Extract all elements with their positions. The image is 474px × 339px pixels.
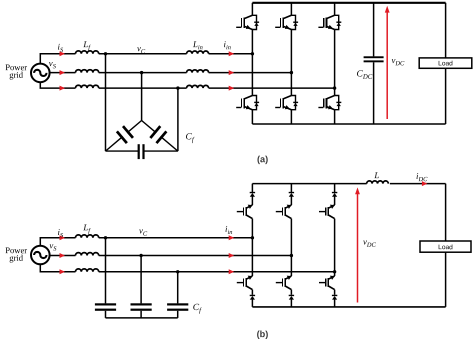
leg 1 wire igbt-diode (b): [251, 290, 253, 295]
svg-text:Lf: Lf: [82, 222, 91, 234]
svg-text:Load: Load: [438, 244, 453, 251]
node tap2 (b): [139, 254, 142, 257]
svg-text:Lin: Lin: [192, 39, 203, 51]
arrow i_S phase1 (b): [60, 235, 66, 240]
top DC rail (a): [252, 2, 445, 4]
leg 2 middle wire (b): [290, 219, 292, 276]
IGBT+diode S6 bottom (a): [318, 96, 341, 110]
svg-text:Load: Load: [438, 60, 453, 67]
svg-text:grid: grid: [9, 70, 24, 80]
leg 2 lower wire (a): [290, 110, 292, 124]
svg-text:iDC: iDC: [416, 171, 428, 183]
right vertical wire (a): [445, 3, 447, 124]
wire cap3 bottom stub (b): [177, 311, 179, 318]
IGBT+diode S1 top (a): [236, 15, 259, 29]
capacitor C_f left branch (a): [106, 121, 142, 152]
svg-text:CDC: CDC: [356, 70, 372, 81]
diode D1 top (b): [250, 192, 255, 197]
arrow i_DC (b): [422, 181, 428, 186]
IGBT Q4 bottom (b): [237, 276, 253, 290]
wire phase1 mid (a): [99, 53, 187, 55]
capacitor C_f 2 plates (b): [131, 303, 152, 305]
right vertical wire (b): [445, 184, 447, 307]
leg 1 top wire (b): [251, 184, 253, 192]
wire cap1 bottom stub (b): [105, 311, 107, 318]
phase node leg3 (a): [333, 86, 336, 89]
leg 2 wire diode-igbt (b): [290, 196, 292, 205]
node tap1 (b): [104, 236, 107, 239]
capacitor C_DC plates (a): [364, 56, 384, 58]
inductor L_f phase3 (b): [76, 269, 99, 272]
svg-text:iin: iin: [225, 224, 232, 236]
svg-text:(a): (a): [257, 154, 268, 164]
wire source top vertical (b): [40, 238, 75, 246]
arrow i_in phase3 (b): [229, 269, 235, 274]
inductor L_in phase1 (a): [187, 51, 209, 54]
arrow v_DC (b): [355, 187, 360, 302]
arrow i_in phase1 (a): [229, 51, 235, 56]
load box (b): [420, 241, 471, 252]
arrow i_in phase3 (a): [229, 86, 235, 91]
svg-text:vDC: vDC: [363, 237, 377, 249]
leg 2 upper wire (a): [290, 3, 292, 16]
inductor L_in phase3 (a): [187, 85, 209, 88]
arrow v_DC (a): [385, 6, 390, 119]
wire C_DC upper (a): [373, 3, 375, 57]
phase node leg3 (b): [333, 270, 336, 273]
node tap3 (a): [176, 86, 179, 89]
phase node leg1 (a): [251, 52, 254, 55]
IGBT Q1 top (b): [237, 205, 253, 219]
inductor L_f phase1 (b): [76, 235, 99, 238]
leg 3 bottom wire (b): [334, 299, 336, 307]
arrow i_S phase2 (b): [60, 253, 66, 258]
svg-text:Cf: Cf: [193, 303, 202, 314]
wire source bottom vertical (b): [40, 264, 75, 272]
leg 3 wire igbt-diode (b): [334, 290, 336, 295]
arrow i_in phase1 (b): [229, 235, 235, 240]
AC source circle (b): [31, 246, 50, 265]
svg-text:Lf: Lf: [82, 39, 91, 51]
svg-text:grid: grid: [9, 253, 24, 263]
phase node leg2 (b): [290, 254, 293, 257]
wire phase3 right (a): [209, 87, 335, 89]
wire source bottom vertical (a): [40, 82, 75, 88]
svg-text:iin: iin: [223, 39, 230, 51]
capacitor C_f 3 plates (b): [167, 303, 188, 305]
AC source sine wave (a): [34, 70, 46, 76]
capacitor C_f right branch (a): [142, 121, 178, 152]
arrow i_in phase2 (a): [229, 70, 235, 75]
inductor L_f phase2 (b): [76, 253, 99, 256]
svg-text:vS: vS: [49, 58, 57, 70]
wire phase3 right (b): [99, 271, 335, 273]
leg 1 bottom wire (b): [251, 299, 253, 307]
leg 1 middle wire (b): [251, 219, 253, 276]
IGBT+diode S3 top (a): [318, 15, 341, 29]
capacitor C_f bottom branch (a): [106, 144, 178, 159]
wire capacitor common node (b): [106, 317, 178, 319]
wire tap3 down (b): [177, 272, 179, 304]
inductor L_f phase1 (a): [76, 51, 99, 54]
svg-text:vS: vS: [49, 240, 57, 252]
node tap3 (b): [176, 270, 179, 273]
IGBT Q3 top (b): [319, 205, 335, 219]
svg-text:iS: iS: [57, 42, 63, 54]
arrow i_S phase3 (b): [60, 269, 66, 274]
svg-text:vDC: vDC: [391, 55, 405, 67]
wire cap2 bottom stub (b): [140, 311, 142, 318]
node tap1 (a): [104, 52, 107, 55]
node tap2 (a): [140, 71, 143, 74]
wire tap3 down (a): [177, 88, 179, 151]
leg 2 bottom wire (b): [290, 299, 292, 307]
wire phase3 mid (a): [99, 87, 187, 89]
wire phase2 right (a): [209, 72, 292, 74]
arrow i_S phase1 (a): [60, 51, 66, 56]
capacitor C_f 1 plates (b): [95, 303, 116, 305]
diode D4 bottom (b): [250, 295, 255, 300]
arrow i_S phase2 (a): [60, 70, 66, 75]
diode D5 bottom (b): [289, 295, 294, 300]
inductor L_f phase3 (a): [76, 85, 99, 88]
wire source middle (b): [50, 255, 76, 257]
wire tap1 down (b): [105, 238, 107, 304]
IGBT Q2 top (b): [276, 205, 292, 219]
diode D2 top (b): [289, 192, 294, 197]
leg 2 wire igbt-diode (b): [290, 290, 292, 295]
svg-text:(b): (b): [257, 329, 269, 339]
IGBT+diode S5 bottom (a): [275, 96, 298, 110]
leg 3 lower wire (a): [334, 110, 336, 124]
leg 2 top wire (b): [290, 184, 292, 192]
wire phase2 mid (a): [99, 72, 187, 74]
bottom DC rail (b): [252, 306, 445, 308]
leg 1 wire diode-igbt (b): [251, 196, 253, 205]
leg 3 wire diode-igbt (b): [334, 196, 336, 205]
diode D3 top (b): [332, 192, 337, 197]
inductor L_f phase2 (a): [76, 70, 99, 73]
AC source sine wave (b): [34, 252, 46, 258]
IGBT Q6 bottom (b): [319, 276, 335, 290]
leg 1 upper wire (a): [251, 3, 253, 16]
bottom DC rail (a): [252, 123, 445, 125]
svg-text:vC: vC: [139, 225, 148, 237]
arrow i_in phase2 (b): [229, 253, 235, 258]
load box (a): [419, 58, 472, 68]
wire source middle (a): [50, 72, 76, 74]
leg 3 middle wire (b): [334, 219, 336, 276]
svg-text:L: L: [373, 170, 379, 180]
leg 1 middle wire (a): [251, 30, 253, 96]
diode D6 bottom (b): [332, 295, 337, 300]
arrow i_S phase3 (a): [60, 86, 66, 91]
top DC rail right segment (b): [390, 183, 446, 185]
IGBT Q5 bottom (b): [276, 276, 292, 290]
wire source top vertical (a): [40, 54, 75, 64]
phase node leg2 (a): [290, 71, 293, 74]
IGBT+diode S2 top (a): [275, 15, 298, 29]
leg 2 middle wire (a): [290, 30, 292, 96]
top DC rail left segment (b): [252, 183, 366, 185]
wire tap2 down (b): [140, 256, 142, 304]
leg 3 upper wire (a): [334, 3, 336, 16]
AC source circle (a): [31, 64, 50, 83]
wire C_DC lower (a): [373, 62, 375, 124]
leg 1 lower wire (a): [251, 110, 253, 124]
svg-text:Cf: Cf: [185, 132, 194, 143]
wire tap2 down (a): [141, 73, 143, 121]
leg 3 middle wire (a): [334, 30, 336, 96]
leg 3 top wire (b): [334, 184, 336, 192]
inductor L (b): [367, 181, 389, 184]
wire phase1 right (b): [99, 237, 253, 239]
wire phase1 right (a): [209, 53, 253, 55]
inductor L_in phase2 (a): [187, 70, 209, 73]
phase node leg1 (b): [251, 236, 254, 239]
wire tap1 down (a): [105, 54, 107, 151]
wire phase2 right (b): [99, 255, 292, 257]
IGBT+diode S4 bottom (a): [236, 96, 259, 110]
